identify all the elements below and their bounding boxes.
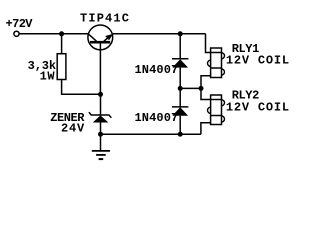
transistor Q1 TIP41C circle bbox=[88, 25, 113, 50]
node D1 bottom bbox=[178, 86, 183, 91]
terminal +72V bbox=[14, 31, 19, 36]
relay RLY2 right bump lower bbox=[222, 116, 225, 122]
transistor base bar bbox=[90, 41, 110, 44]
diode D2 1N4007 bar bbox=[172, 106, 188, 108]
relay RLY2 left bump bbox=[208, 107, 211, 113]
wire RLY1 bottom to mid node bbox=[201, 76, 211, 100]
wire mid node horizontal bbox=[180, 87, 201, 89]
zener diode Z1 24V cathode bar with hooks bbox=[89, 112, 111, 118]
diode D2 triangle bbox=[172, 107, 188, 115]
wire from terminal to transistor collector bbox=[19, 33, 88, 35]
node top rail D1 tap bbox=[178, 31, 183, 36]
relay RLY1 right bump lower bbox=[222, 69, 225, 75]
diode D1 1N4007 bar bbox=[172, 58, 188, 60]
relay RLY2 bottom plate line bbox=[211, 115, 222, 117]
relay RLY1 bottom plate line bbox=[211, 67, 222, 69]
node base junction bbox=[98, 92, 103, 97]
relay RLY2 top plate line bbox=[211, 99, 222, 101]
wire base node to zener bbox=[100, 94, 102, 115]
wire D1 bottom bbox=[179, 68, 181, 89]
wire RLY2 bottom to rail bbox=[201, 123, 211, 134]
top rail wire emitter to relays bbox=[113, 33, 206, 35]
wire D2 bottom bbox=[179, 116, 181, 135]
zener diode Z1 triangle bbox=[93, 115, 109, 122]
relay RLY1 coil body bbox=[211, 48, 222, 78]
relay RLY1 top plate line bbox=[211, 52, 222, 54]
node relay mid bbox=[199, 86, 204, 91]
svg-text:+72V: +72V bbox=[6, 17, 34, 31]
svg-text:12V COIL: 12V COIL bbox=[226, 100, 290, 114]
svg-text:24V: 24V bbox=[61, 121, 85, 135]
svg-text:1W: 1W bbox=[40, 70, 56, 84]
relay RLY2 right bump upper bbox=[222, 100, 225, 106]
wire resistor bottom to base node bbox=[62, 80, 101, 95]
node ground rail left bbox=[98, 132, 103, 137]
transistor emitter lead with arrow bbox=[104, 36, 111, 42]
node junction at resistor top bbox=[59, 31, 64, 36]
wire D2 top bbox=[179, 88, 181, 107]
bottom rail wire bbox=[101, 133, 201, 135]
ground bbox=[92, 150, 110, 152]
relay RLY1 left bump bbox=[208, 60, 211, 66]
svg-text:TIP41C: TIP41C bbox=[80, 12, 130, 26]
diode D1 triangle bbox=[172, 59, 188, 67]
svg-text:1N4007: 1N4007 bbox=[135, 63, 179, 77]
wire junction to resistor top bbox=[61, 34, 63, 54]
svg-text:1N4007: 1N4007 bbox=[135, 111, 179, 125]
relay RLY2 coil body bbox=[211, 95, 222, 125]
transistor collector lead bbox=[88, 34, 96, 41]
wire zener to ground rail bbox=[100, 123, 102, 135]
wire base down bbox=[99, 44, 101, 95]
wire down to ground bbox=[100, 134, 102, 151]
relay RLY1 right bump upper bbox=[222, 53, 225, 59]
wire top rail to RLY1 bbox=[206, 34, 211, 53]
node bottom rail D2 bbox=[178, 132, 183, 137]
svg-text:12V COIL: 12V COIL bbox=[226, 54, 290, 68]
resistor R1 3,3k 1W bbox=[57, 54, 66, 80]
wire D1 top bbox=[179, 34, 181, 59]
